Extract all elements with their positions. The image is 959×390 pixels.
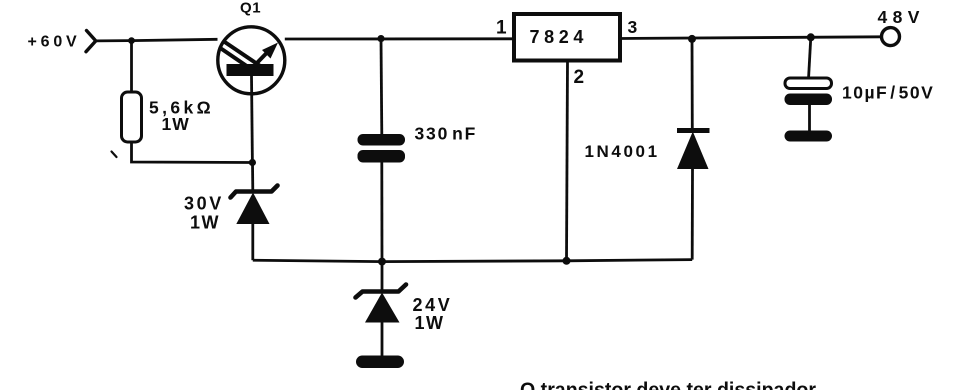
- wire 7824 pin3 to output: [620, 37, 882, 39]
- wire diode 1N4001 to bottom rail: [691, 169, 694, 260]
- label 5,6kOhm 1W: [149, 98, 214, 135]
- node top rail / 330nF junction: [377, 35, 384, 42]
- node output / cap junction: [807, 33, 815, 41]
- capacitor 330nF: [358, 134, 406, 163]
- pin 1 label: [496, 18, 507, 39]
- resistor R 5,6k: [122, 92, 142, 142]
- svg-text:1N4001: 1N4001: [585, 142, 660, 161]
- label 24V 1W: [413, 295, 453, 333]
- wire input to Q1: [96, 39, 218, 41]
- wire zener 30V to bottom rail: [251, 224, 254, 260]
- terminal 48V output: [882, 28, 900, 46]
- svg-text:+60V: +60V: [28, 34, 81, 51]
- svg-text:2: 2: [574, 67, 585, 88]
- wire resistor bottom to base node: [132, 142, 253, 163]
- svg-text:Q1: Q1: [240, 0, 261, 17]
- wire capacitor 330nF to bottom rail: [380, 163, 383, 262]
- svg-text:7824: 7824: [530, 27, 588, 47]
- wire top to capacitor 330nF: [380, 39, 384, 135]
- input connector chevron: [86, 31, 96, 52]
- label 48V: [878, 7, 925, 27]
- stray tick mark: [112, 152, 117, 158]
- diode 1N4001: [677, 131, 710, 170]
- label 10uF/50V: [842, 82, 934, 102]
- label Q1: [240, 0, 261, 17]
- label 1N4001: [585, 142, 660, 161]
- wire junction to resistor: [130, 41, 133, 93]
- svg-text:30V: 30V: [184, 194, 224, 214]
- wire junction to diode 1N4001: [691, 39, 694, 130]
- svg-text:1: 1: [496, 18, 507, 39]
- wire Q1 emitter to 7824 pin1: [285, 37, 514, 40]
- pin 2 label: [574, 67, 585, 88]
- svg-text:1W: 1W: [190, 213, 220, 233]
- wire bottom rail: [253, 260, 692, 262]
- wire bottom rail node to zener 24V: [381, 262, 384, 291]
- node input/resistor junction: [128, 37, 135, 44]
- node bottom rail / 330nF: [378, 258, 386, 266]
- wire 7824 pin2 to bottom rail: [567, 61, 568, 261]
- label +60V input: [28, 34, 81, 51]
- label 30V 1W: [184, 194, 224, 233]
- ground symbol output: [785, 131, 833, 142]
- node base/zener junction: [249, 159, 256, 166]
- svg-text:330nF: 330nF: [415, 124, 478, 144]
- caption text (clipped at bottom): [520, 380, 816, 390]
- svg-text:1W: 1W: [415, 313, 445, 333]
- zener diode 30V: [231, 186, 278, 225]
- node pin3 / 1N4001 junction: [688, 35, 696, 43]
- svg-text:3: 3: [628, 17, 638, 37]
- node bottom rail / pin2: [563, 257, 571, 265]
- svg-text:1W: 1W: [162, 114, 190, 134]
- zener diode 24V: [356, 285, 407, 323]
- wire base node to zener D1: [251, 163, 254, 192]
- wire junction to capacitor C2: [809, 37, 811, 79]
- svg-text:10µF/50V: 10µF/50V: [842, 82, 934, 102]
- pin 3 label: [628, 17, 638, 37]
- label 330nF: [415, 124, 478, 144]
- ground symbol zener: [356, 356, 404, 369]
- wire Q1 base down: [250, 76, 254, 163]
- transistor Q1: [218, 27, 285, 94]
- svg-text:48V: 48V: [878, 7, 925, 27]
- regulator U1 7824: [514, 14, 620, 61]
- svg-text:O transistor deve ter dissipad: O transistor deve ter dissipador: [520, 380, 816, 390]
- wire capacitor C2 to ground: [808, 105, 811, 132]
- wire zener 24V to ground: [381, 323, 384, 357]
- capacitor C2 10uF/50V electrolytic: [785, 78, 833, 105]
